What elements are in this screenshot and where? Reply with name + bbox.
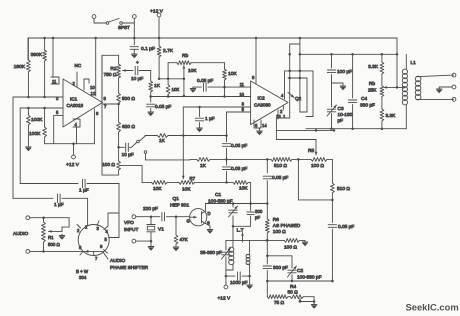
wire left drop bbox=[12, 97, 14, 198]
svg-text:300 pF: 300 pF bbox=[273, 265, 288, 271]
wire x267 mid bbox=[266, 240, 269, 257]
svg-text:NC: NC bbox=[75, 63, 82, 68]
can pin 6 bbox=[100, 244, 108, 253]
ground transformer bbox=[246, 285, 252, 289]
transformer secondary right bbox=[415, 76, 421, 100]
label 2.7K bbox=[163, 48, 174, 54]
label C3 bbox=[338, 106, 353, 124]
potentiometer Rb 10K bbox=[168, 53, 224, 65]
wire tank bottom bbox=[232, 225, 251, 228]
wire row182 b bbox=[195, 181, 233, 183]
potentiometer Rb 25K bbox=[380, 79, 384, 97]
wire 298 bypass bbox=[298, 159, 332, 200]
svg-text:14: 14 bbox=[262, 123, 267, 128]
resistor 3.3K upper bbox=[380, 54, 384, 79]
svg-text:100 Ω: 100 Ω bbox=[102, 162, 115, 168]
label 3.3K upper bbox=[368, 64, 379, 70]
capacitor 220pF bbox=[151, 213, 177, 221]
wire IC1 bottom bus bbox=[45, 142, 95, 145]
resistor 100 vert bbox=[117, 147, 121, 175]
label 100K upper bbox=[31, 117, 43, 123]
svg-text:380 pF: 380 pF bbox=[360, 103, 375, 109]
label C2 bbox=[297, 268, 322, 281]
label 1K row160 bbox=[200, 163, 207, 169]
label 510 vert bbox=[337, 186, 350, 192]
svg-text:100-580 pF: 100-580 pF bbox=[208, 199, 233, 205]
label R1 500 bbox=[48, 235, 61, 247]
label 300pF lower bbox=[273, 265, 288, 271]
label SPST bbox=[118, 25, 130, 30]
svg-text:10 µF: 10 µF bbox=[131, 76, 143, 82]
wire C2 branch bbox=[267, 256, 292, 268]
svg-text:1K: 1K bbox=[154, 83, 161, 89]
can pin 7 bbox=[94, 251, 98, 261]
svg-text:Rb: Rb bbox=[182, 53, 188, 59]
transistor Q2 bbox=[288, 93, 302, 102]
label 1K vert bbox=[154, 83, 161, 89]
Rb wiper arrow bbox=[183, 66, 198, 98]
capacitor C3 variable bbox=[327, 83, 337, 129]
svg-text:IC2: IC2 bbox=[258, 96, 266, 101]
label 100uF bbox=[337, 69, 352, 75]
svg-text:SeekIC.com: SeekIC.com bbox=[406, 302, 459, 313]
phase shifter can bbox=[78, 225, 109, 256]
svg-text:R2: R2 bbox=[110, 66, 116, 72]
label V1 bbox=[158, 227, 164, 233]
wire row281 bbox=[266, 280, 332, 283]
resistor 100K lower bbox=[43, 108, 47, 144]
label R2 750 bbox=[104, 66, 117, 78]
svg-text:100 Ω: 100 Ω bbox=[273, 229, 286, 235]
wire R5 right bbox=[327, 159, 332, 183]
wire Q2 cross1 bbox=[285, 70, 314, 73]
pin 6 stub bbox=[94, 109, 99, 144]
svg-text:C2: C2 bbox=[297, 268, 303, 274]
potentiometer R1 500 bbox=[42, 218, 46, 252]
resistor 1K h1 bbox=[157, 134, 168, 138]
capacitor 10uF wiper bbox=[131, 61, 151, 82]
wire row182 stub bbox=[121, 166, 142, 183]
svg-text:AS PHASED: AS PHASED bbox=[273, 223, 301, 229]
svg-text:1 µF: 1 µF bbox=[54, 202, 64, 208]
svg-text:1 µF: 1 µF bbox=[205, 116, 215, 122]
terminal +12V IC1 bbox=[72, 144, 76, 159]
capacitor 0.1uF bbox=[130, 47, 138, 50]
svg-text:100 Ω: 100 Ω bbox=[311, 163, 324, 169]
pin 10 stub bbox=[84, 79, 95, 90]
svg-text:750 Ω: 750 Ω bbox=[104, 72, 117, 78]
svg-text:75 Ω: 75 Ω bbox=[274, 300, 285, 306]
terminal +12V bottom bbox=[224, 276, 228, 289]
pin 1 label bbox=[283, 114, 286, 119]
svg-text:C4: C4 bbox=[361, 96, 367, 102]
svg-text:3.3K: 3.3K bbox=[386, 113, 397, 119]
svg-text:VFO: VFO bbox=[124, 220, 134, 226]
svg-text:35-380 pF: 35-380 pF bbox=[200, 250, 222, 256]
svg-text:500 Ω: 500 Ω bbox=[122, 96, 135, 102]
svg-text:180K: 180K bbox=[14, 64, 26, 70]
resistor 10K mid bbox=[166, 79, 170, 97]
svg-text:11: 11 bbox=[240, 82, 245, 87]
wire rail to 54 bbox=[300, 53, 397, 56]
wire sec top bbox=[417, 75, 454, 77]
capacitor 1uF B bbox=[13, 194, 88, 222]
capacitor 1uF bbox=[195, 107, 203, 132]
resistor 620 vert bbox=[117, 122, 121, 149]
terminal VFO bottom bbox=[132, 239, 152, 243]
label 0.05uF c1 bbox=[231, 143, 247, 149]
wire Q2 verticals bbox=[288, 53, 301, 112]
terminal +12V top bbox=[157, 13, 161, 39]
svg-text:100 µF: 100 µF bbox=[337, 69, 352, 75]
resistor 180K bbox=[27, 38, 31, 97]
svg-text:0.05 µF: 0.05 µF bbox=[231, 166, 247, 172]
label 500ohm bbox=[122, 96, 135, 102]
svg-text:1000 pF: 1000 pF bbox=[230, 280, 248, 286]
label 180K bbox=[14, 64, 26, 70]
ground below 100K bbox=[25, 147, 31, 151]
wire top +12V rail bbox=[28, 37, 397, 39]
svg-text:CA3018: CA3018 bbox=[67, 103, 84, 108]
wire row160 left bbox=[225, 158, 271, 161]
terminal out mid bbox=[439, 85, 456, 89]
label Q1 bbox=[170, 196, 189, 209]
op-amp IC1 CA3018 bbox=[63, 79, 103, 127]
svg-text:10K: 10K bbox=[172, 87, 180, 92]
resistor 510 vert bbox=[331, 183, 335, 201]
svg-text:510 Ω: 510 Ω bbox=[337, 186, 350, 192]
wire R2 top link bbox=[102, 55, 119, 64]
op-amp IC2 CA3080 bbox=[251, 81, 288, 125]
can pin 2 bbox=[77, 225, 81, 234]
svg-text:220 pF: 220 pF bbox=[143, 206, 158, 212]
node rail corner left bbox=[27, 38, 29, 60]
pin 3 label bbox=[56, 96, 59, 101]
capacitor 0.05uF ic2in bbox=[195, 83, 226, 91]
wire Q2 cross2 bbox=[288, 77, 307, 80]
svg-text:500 Ω: 500 Ω bbox=[48, 242, 61, 247]
label 0.05uF x267 bbox=[272, 175, 288, 181]
resistor 510 horiz bbox=[271, 158, 292, 162]
pin 11 box bbox=[51, 37, 59, 84]
resistor 47K bbox=[173, 217, 179, 252]
svg-text:3.3K: 3.3K bbox=[368, 64, 379, 70]
svg-text:100K: 100K bbox=[29, 131, 41, 137]
label S bbox=[207, 221, 210, 226]
svg-text:11: 11 bbox=[52, 79, 57, 84]
wire x267 top bbox=[266, 159, 268, 173]
terminal out bottom bbox=[452, 98, 456, 102]
svg-text:Rb: Rb bbox=[369, 81, 375, 87]
svg-text:100-580 pF: 100-580 pF bbox=[297, 275, 322, 281]
svg-text:0.1 µF: 0.1 µF bbox=[141, 46, 155, 52]
wire row1355 bbox=[168, 135, 227, 137]
ground Q1 source bbox=[207, 230, 213, 234]
label 10K h2 bbox=[182, 187, 191, 193]
svg-text:100 Ω: 100 Ω bbox=[284, 245, 297, 251]
wire audio bottom ext bbox=[44, 250, 104, 253]
wire Q2 rail bbox=[290, 37, 301, 55]
label 0.05uF left bbox=[155, 104, 171, 110]
wire node 240 bbox=[266, 239, 284, 242]
capacitor 300pF tank bbox=[247, 204, 254, 227]
svg-text:10K: 10K bbox=[182, 187, 191, 193]
label 1uF A bbox=[79, 188, 89, 194]
svg-text:0.05 µF: 0.05 µF bbox=[338, 224, 354, 230]
wire c1 box right bbox=[249, 182, 252, 204]
inductor L1 bbox=[402, 54, 407, 128]
wire gate bbox=[176, 216, 190, 218]
wire x267 bottom bbox=[266, 281, 268, 297]
label 10uF switch bbox=[122, 152, 134, 158]
resistor 100K upper bbox=[27, 108, 31, 147]
wire primary bottom bbox=[226, 264, 233, 270]
svg-text:+: + bbox=[136, 61, 139, 66]
wire left drop A bbox=[19, 108, 21, 184]
svg-text:10K: 10K bbox=[188, 68, 197, 74]
wire tank top bbox=[206, 202, 269, 205]
wire 0.1uF stem bbox=[133, 38, 135, 45]
svg-text:0.05 µF: 0.05 µF bbox=[197, 78, 213, 84]
ground 0.05 left bbox=[190, 87, 196, 93]
svg-text:+12 V: +12 V bbox=[218, 296, 231, 302]
pin 2 stub ic2 bbox=[280, 106, 283, 115]
svg-text:Q1: Q1 bbox=[173, 196, 180, 202]
wire pin5 ic2 bbox=[225, 112, 250, 137]
svg-text:R6: R6 bbox=[273, 217, 279, 223]
wire switch upper contact bbox=[140, 136, 158, 142]
label 100K lower bbox=[29, 131, 41, 137]
ground below 0.1uF bbox=[131, 49, 137, 58]
resistor 10K h1 bbox=[142, 181, 167, 185]
label +12V bottom bbox=[218, 296, 231, 302]
resistor R6 100 bbox=[265, 219, 269, 240]
svg-text:50 Ω: 50 Ω bbox=[288, 290, 299, 296]
wire audio top ext bbox=[44, 217, 70, 219]
wire bus y96 bbox=[151, 95, 251, 98]
svg-text:V1: V1 bbox=[158, 227, 164, 233]
label +12V top bbox=[150, 9, 164, 15]
svg-text:pF: pF bbox=[338, 118, 344, 124]
svg-text:R5: R5 bbox=[308, 148, 314, 154]
label D bbox=[208, 211, 211, 216]
label 0.05uF right bbox=[338, 224, 354, 230]
pin 13 label bbox=[276, 110, 281, 119]
svg-text:SPST: SPST bbox=[118, 25, 130, 30]
label 620ohm bbox=[122, 124, 135, 130]
svg-text:390K: 390K bbox=[31, 52, 43, 58]
svg-text:10K: 10K bbox=[153, 186, 162, 192]
label 10K right bbox=[228, 71, 237, 77]
wire rail right corner bbox=[396, 38, 399, 56]
can pin 3 bbox=[97, 221, 100, 231]
label 10K h3 bbox=[239, 186, 248, 192]
label 1K h1 bbox=[159, 138, 166, 144]
svg-text:D: D bbox=[208, 211, 211, 216]
can pin 5 bbox=[105, 230, 120, 242]
svg-text:AUDIO: AUDIO bbox=[110, 258, 125, 264]
R1 wiper bbox=[49, 218, 70, 233]
svg-text:AUDIO: AUDIO bbox=[13, 231, 28, 237]
capacitor C1 variable bbox=[229, 204, 238, 227]
capacitor 300pF lower bbox=[263, 256, 271, 281]
resistor 3.3K lower bbox=[380, 97, 384, 129]
svg-text:25K: 25K bbox=[368, 88, 377, 94]
svg-text:+12 V: +12 V bbox=[66, 162, 80, 168]
capacitor C2 variable bbox=[288, 266, 297, 282]
wire bottom right bus bbox=[306, 127, 406, 130]
label 220pF bbox=[143, 206, 158, 212]
svg-text:HEP 801: HEP 801 bbox=[170, 203, 189, 209]
label 10K mid bbox=[172, 87, 180, 92]
wire Q2 left box bbox=[284, 71, 286, 94]
pin 7 label bbox=[104, 104, 107, 109]
label 1uF bbox=[205, 116, 215, 122]
svg-text:47K: 47K bbox=[180, 237, 189, 242]
svg-text:Q2: Q2 bbox=[295, 96, 302, 101]
label AUDIO bbox=[13, 231, 28, 237]
switch SPST bbox=[92, 15, 134, 25]
potentiometer R2 750 bbox=[117, 64, 131, 78]
watermark SeekIC.com bbox=[406, 302, 459, 313]
svg-text:IC1: IC1 bbox=[70, 97, 78, 102]
capacitor 100uF bbox=[327, 54, 335, 83]
wire L1 tap bbox=[396, 54, 405, 88]
label 300pF tank bbox=[255, 209, 263, 220]
LT arrow bbox=[241, 233, 244, 243]
svg-text:C1: C1 bbox=[215, 192, 221, 198]
capacitor 1000pF bbox=[226, 272, 250, 280]
label 1uF B bbox=[54, 202, 64, 208]
pin 10 label bbox=[239, 92, 244, 97]
label VFO INPUT bbox=[124, 220, 138, 233]
terminal audio top bbox=[26, 216, 45, 220]
wire Q2 bottom bus bbox=[276, 129, 335, 132]
terminal VFO top bbox=[132, 215, 152, 219]
svg-text:304: 304 bbox=[79, 275, 87, 280]
label 1000pF bbox=[230, 280, 248, 286]
wire pin10 ic2 bbox=[184, 96, 251, 98]
svg-text:G: G bbox=[187, 219, 190, 224]
label NC bbox=[75, 63, 82, 68]
resistor 390K bbox=[43, 37, 47, 97]
svg-text:300: 300 bbox=[255, 209, 263, 214]
ground R1 wiper bbox=[59, 234, 65, 240]
capacitor 1uF A bbox=[20, 179, 119, 230]
wire sec top link bbox=[247, 239, 269, 255]
label 47K bbox=[180, 237, 189, 242]
transformer secondary bbox=[246, 254, 250, 264]
wire node y108 bbox=[20, 107, 63, 110]
label 0.1uF bbox=[141, 46, 155, 52]
svg-text:0.05 µF: 0.05 µF bbox=[272, 175, 288, 181]
wire Q2 bottom bbox=[276, 112, 289, 130]
resistor 10K h3 bbox=[225, 181, 250, 185]
wire row182 a bbox=[167, 181, 179, 183]
switch wafer bbox=[132, 140, 147, 160]
transistor Q1 bbox=[190, 204, 210, 230]
resistor 75 ohm bbox=[267, 295, 288, 299]
capacitor 0.05uF c1 bbox=[222, 136, 230, 160]
svg-text:C3: C3 bbox=[338, 106, 344, 112]
svg-text:R7: R7 bbox=[190, 176, 196, 181]
potentiometer R4 50 bbox=[288, 295, 314, 299]
svg-text:1K: 1K bbox=[200, 163, 207, 169]
node x332 end bbox=[331, 280, 334, 283]
can pin 1 bbox=[85, 222, 88, 230]
crystal V1 bbox=[147, 217, 155, 241]
svg-text:S: S bbox=[207, 221, 210, 226]
wire sec bottom link bbox=[247, 264, 251, 285]
svg-text:R4: R4 bbox=[290, 284, 296, 290]
capacitor 0.05uF right bbox=[328, 200, 336, 282]
svg-text:2.7K: 2.7K bbox=[163, 48, 174, 54]
label Rb 25K bbox=[368, 81, 377, 94]
svg-text:0.05 µF: 0.05 µF bbox=[231, 143, 247, 149]
terminal audio bottom bbox=[26, 250, 45, 254]
resistor 10K right bbox=[223, 63, 227, 97]
pin 3 label bbox=[242, 102, 245, 107]
resistor 100 horiz bbox=[284, 239, 308, 247]
label C1 bbox=[208, 192, 233, 205]
wire node y97 bbox=[13, 96, 63, 99]
pin 5 label bbox=[242, 107, 245, 112]
svg-text:INPUT: INPUT bbox=[124, 227, 138, 233]
wire pin11 ic2 bbox=[225, 86, 251, 88]
wire R5 wiper bbox=[276, 130, 317, 155]
label 100ohm bbox=[102, 162, 115, 168]
svg-text:10K: 10K bbox=[239, 186, 248, 192]
ground 100uF bbox=[332, 83, 347, 90]
wire primary top bbox=[232, 226, 234, 247]
svg-text:620 Ω: 620 Ω bbox=[122, 124, 135, 130]
label LT bbox=[237, 228, 244, 234]
label R4 bbox=[288, 284, 299, 296]
label 35-380pF bbox=[200, 250, 222, 256]
pin 11 label bbox=[240, 82, 245, 87]
wire row160 mid bbox=[292, 158, 311, 161]
transformer primary bbox=[229, 247, 234, 265]
svg-text:+12 V: +12 V bbox=[150, 9, 164, 15]
svg-text:12: 12 bbox=[91, 91, 96, 96]
capacitor 0.05uF x267 bbox=[263, 176, 271, 219]
wire y160 switch bbox=[146, 159, 191, 161]
wire R7 wiper drop bbox=[182, 107, 185, 179]
wire Rb left leg bbox=[159, 63, 184, 80]
svg-text:10-180: 10-180 bbox=[338, 112, 353, 118]
svg-text:B + W: B + W bbox=[76, 269, 89, 274]
pin 4 box bbox=[73, 119, 80, 144]
svg-text:CA3080: CA3080 bbox=[254, 103, 271, 108]
label 0.05uF ic2in bbox=[197, 78, 213, 84]
potentiometer R5 bbox=[308, 148, 327, 169]
svg-text:PHASE SHIFTER: PHASE SHIFTER bbox=[110, 265, 149, 271]
pin 9 wire IC1 bbox=[102, 55, 107, 101]
wire 2404 left bbox=[226, 239, 250, 241]
capacitor 35-380pF bbox=[222, 240, 231, 277]
label 0.05uF c2 bbox=[231, 166, 247, 172]
pin 9 wire IC2 bbox=[252, 37, 257, 84]
label G bbox=[187, 219, 190, 224]
wire Q2 inner right bbox=[300, 78, 307, 112]
ground VFO bbox=[148, 241, 154, 251]
capacitor 10uF switch bbox=[119, 143, 132, 151]
capacitor C4 bbox=[348, 54, 356, 128]
label audio phase shifter bbox=[103, 252, 149, 271]
R4 wiper bbox=[299, 297, 318, 309]
label 3.3K lower bbox=[386, 113, 397, 119]
svg-text:10: 10 bbox=[90, 85, 95, 90]
